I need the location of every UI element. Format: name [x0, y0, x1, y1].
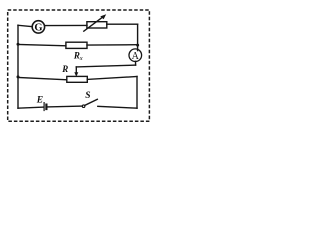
svg-text:x: x: [79, 55, 83, 62]
svg-text:A: A: [132, 51, 140, 62]
svg-text:R: R: [61, 64, 68, 74]
svg-text:E: E: [36, 96, 43, 106]
svg-text:S: S: [85, 91, 90, 101]
svg-text:G: G: [34, 22, 42, 33]
